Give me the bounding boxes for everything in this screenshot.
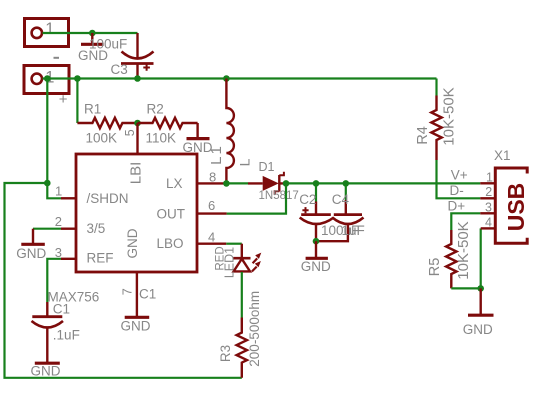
resistor R4 10K-50K: [415, 87, 457, 160]
wire battery-plus down to /SHDN: [47, 79, 61, 199]
resistor R2 110K: [138, 101, 198, 145]
wire battery-minus from terminal to C3 top: [43, 32, 138, 34]
svg-text:7: 7: [121, 288, 135, 295]
wire USB pin4 down: [480, 228, 482, 288]
terminal X2-2 (bottom screw terminal): [24, 66, 69, 109]
node L1 top: [223, 75, 230, 82]
pin D+ 3: [480, 212, 495, 214]
wire LBI pin 5: [136, 123, 138, 154]
wire R5 bottom to pin4 net: [451, 287, 480, 289]
node R5/pin4 junction: [477, 285, 484, 292]
inductor L1: [208, 79, 252, 184]
svg-text:GND: GND: [121, 318, 151, 333]
capacitor C1 .1uF: [32, 302, 80, 363]
svg-text:1N5817: 1N5817: [259, 190, 299, 202]
diode D1 1N5817 schottky: [248, 160, 299, 202]
pin D- 2: [480, 197, 495, 199]
node LX / L1 junction: [223, 180, 230, 187]
svg-text:L1: L1: [208, 144, 225, 165]
svg-text:C4: C4: [332, 192, 350, 207]
wire D+ to R5: [451, 213, 480, 230]
svg-text:R3: R3: [218, 345, 233, 362]
wire rail corner down to R4: [435, 79, 437, 96]
wire OUT riser: [227, 183, 286, 213]
svg-text:C1: C1: [53, 302, 70, 317]
svg-text:LBI: LBI: [127, 162, 144, 185]
pin 6 OUT: [197, 212, 227, 214]
ground GND (3/5 pin): [16, 229, 46, 261]
svg-text:C3: C3: [111, 62, 128, 77]
op-amp IC1 MAX756 body: [48, 154, 198, 304]
svg-text:L: L: [236, 158, 252, 166]
node V+ after diode: [283, 180, 290, 187]
wire C4 branch: [345, 183, 347, 200]
svg-text:GND: GND: [301, 259, 331, 274]
wire LED to R3: [241, 272, 243, 318]
svg-text:USB: USB: [503, 183, 529, 232]
svg-text:10K-50K: 10K-50K: [455, 221, 472, 279]
svg-text:LBO: LBO: [157, 236, 184, 251]
resistor R1 100K: [77, 101, 137, 145]
svg-text:IC1: IC1: [135, 286, 156, 301]
svg-text:D-: D-: [450, 183, 464, 198]
terminal X2-1 (top screw terminal): [25, 19, 69, 47]
node C2 top: [313, 180, 320, 187]
resistor R5 10K-50K: [427, 221, 472, 288]
node C4 top: [343, 180, 350, 187]
svg-text:R1: R1: [84, 101, 101, 116]
svg-text:LED1: LED1: [222, 247, 236, 278]
svg-text:+: +: [59, 91, 68, 108]
capacitor C3 100uF: [89, 33, 154, 79]
svg-text:2: 2: [55, 214, 62, 229]
svg-text:4: 4: [485, 216, 492, 230]
ground GND (C2/C4): [301, 241, 331, 274]
svg-text:8: 8: [209, 169, 216, 184]
pin V+ 1: [480, 182, 495, 184]
pin 4: [481, 227, 496, 229]
label minus sign: [54, 57, 60, 59]
svg-text:GND: GND: [16, 246, 46, 261]
wire C2 branch: [315, 183, 317, 201]
node terminal junction: [44, 75, 51, 82]
svg-text:5: 5: [123, 129, 137, 136]
wire R1 branch down: [76, 79, 78, 124]
svg-text:OUT: OUT: [157, 207, 186, 222]
LED LED1 RED: [214, 244, 261, 278]
wire REF to C1: [47, 259, 61, 302]
svg-text:3/5: 3/5: [87, 221, 106, 236]
svg-text:200-500ohm: 200-500ohm: [247, 291, 262, 367]
wire V+ rail to USB pin1: [286, 182, 480, 184]
svg-text:X1: X1: [494, 148, 511, 163]
svg-text:10K-50K: 10K-50K: [441, 87, 458, 145]
capacitor C4 1uF: [316, 192, 365, 241]
svg-text:4: 4: [208, 230, 215, 245]
svg-text:3: 3: [55, 245, 62, 260]
pin 1 /SHDN: [61, 197, 76, 199]
pin 3 REF: [61, 258, 76, 260]
wire left rail to bottom loop: [5, 183, 242, 378]
svg-text:100uF: 100uF: [89, 36, 127, 51]
svg-text:1: 1: [45, 20, 54, 38]
pin 2 3/5: [61, 227, 76, 229]
ground GND (IC pin 7): [121, 317, 151, 333]
svg-text:GND: GND: [31, 364, 61, 379]
node C2/C4 ground junction: [313, 238, 320, 245]
svg-text:GND: GND: [463, 322, 493, 337]
svg-text:R5: R5: [427, 258, 443, 277]
pin 4 LBO: [197, 242, 226, 244]
svg-text:D1: D1: [259, 160, 275, 174]
wire pin2 to gnd: [33, 228, 61, 230]
pin 7 GND to ground: [136, 272, 138, 317]
svg-text:C2: C2: [299, 192, 316, 207]
svg-text:2: 2: [485, 185, 492, 199]
svg-text:REF: REF: [87, 250, 114, 265]
pin 8 LX: [197, 182, 226, 184]
svg-text:GND: GND: [125, 228, 140, 258]
svg-text:/SHDN: /SHDN: [87, 191, 129, 206]
node SHDN junction: [44, 180, 51, 187]
node C3 bottom: [134, 75, 141, 82]
svg-text:1: 1: [55, 184, 62, 199]
wire R4 to D-: [437, 160, 481, 198]
wire battery-plus rail: [43, 77, 437, 79]
svg-text:R4: R4: [415, 126, 431, 145]
resistor R3 200-500ohm: [218, 291, 262, 378]
node R1/R2/LBI junction: [134, 120, 141, 127]
svg-text:1: 1: [486, 171, 493, 185]
ground GND (R2): [183, 123, 213, 155]
svg-text:R2: R2: [147, 101, 164, 116]
connector X1 USB: [494, 148, 529, 244]
svg-text:1uF: 1uF: [342, 223, 365, 238]
svg-text:3: 3: [485, 201, 492, 215]
svg-text:6: 6: [208, 198, 215, 213]
svg-text:110K: 110K: [146, 130, 177, 145]
capacitor C2 100uF: [299, 192, 359, 241]
svg-text:.1uF: .1uF: [53, 328, 80, 343]
svg-text:D+: D+: [448, 199, 466, 214]
wire LBO to LED: [226, 243, 242, 245]
ground GND (C1): [31, 363, 61, 378]
svg-text:V+: V+: [451, 168, 468, 183]
node R1 branch: [74, 75, 81, 82]
wire LX to D1 anode: [226, 182, 248, 184]
svg-text:LX: LX: [166, 176, 183, 191]
svg-text:100K: 100K: [86, 130, 118, 145]
ground GND (battery minus): [78, 33, 108, 63]
node battery-minus junction: [89, 30, 96, 37]
ground GND (USB): [463, 288, 494, 336]
